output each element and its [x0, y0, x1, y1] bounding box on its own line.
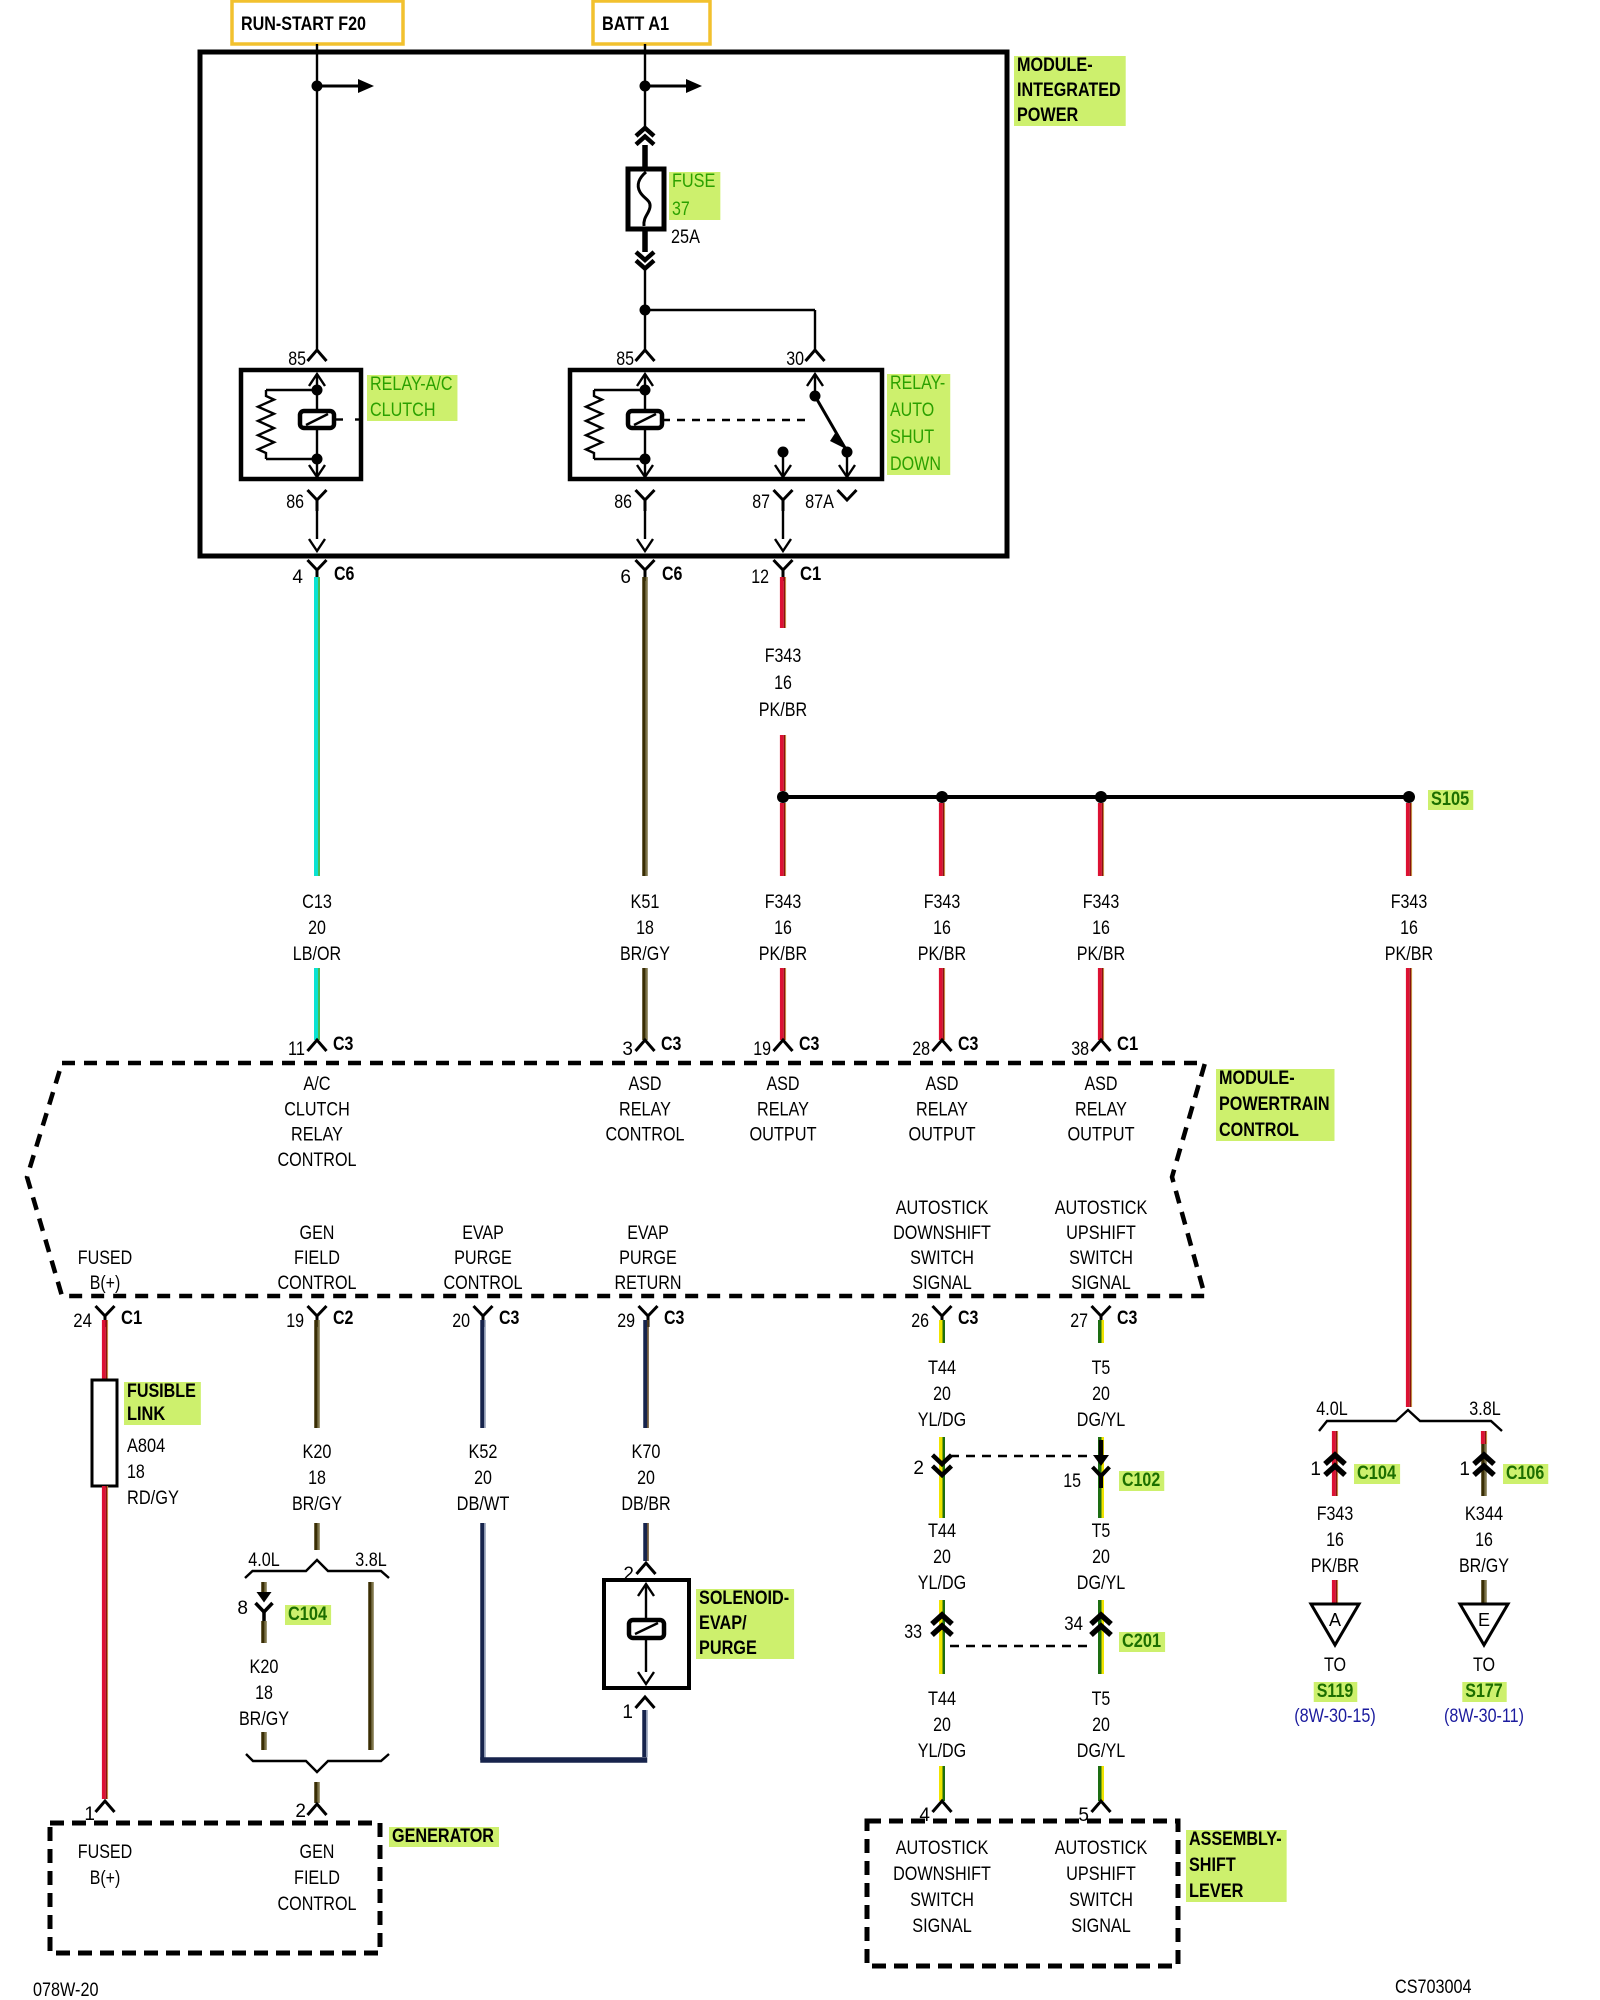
svg-text:CONTROL: CONTROL	[606, 1125, 685, 1146]
svg-text:ASD: ASD	[766, 1074, 799, 1095]
svg-text:AUTOSTICK: AUTOSTICK	[896, 1838, 989, 1859]
svg-text:1: 1	[1459, 1459, 1470, 1480]
svg-text:LEVER: LEVER	[1189, 1881, 1244, 1902]
svg-text:34: 34	[1064, 1614, 1083, 1635]
svg-text:RETURN: RETURN	[614, 1273, 681, 1294]
svg-text:PK/BR: PK/BR	[1077, 944, 1125, 965]
svg-text:28: 28	[912, 1039, 930, 1060]
svg-text:PK/BR: PK/BR	[1311, 1556, 1359, 1577]
svg-text:FUSE: FUSE	[672, 171, 715, 192]
svg-text:RELAY: RELAY	[619, 1099, 671, 1120]
svg-text:GEN: GEN	[300, 1223, 335, 1244]
svg-text:20: 20	[1092, 1547, 1110, 1568]
svg-text:CS703004: CS703004	[1395, 1977, 1472, 1998]
svg-text:MODULE-: MODULE-	[1219, 1068, 1295, 1089]
svg-text:T44: T44	[928, 1358, 956, 1379]
svg-text:FUSED: FUSED	[78, 1842, 132, 1863]
svg-text:19: 19	[753, 1039, 771, 1060]
svg-text:20: 20	[1092, 1384, 1110, 1405]
svg-text:K20: K20	[250, 1657, 279, 1678]
svg-text:86: 86	[614, 492, 632, 513]
svg-text:ASD: ASD	[925, 1074, 958, 1095]
svg-text:85: 85	[288, 349, 306, 370]
svg-text:C3: C3	[661, 1034, 681, 1055]
svg-text:C6: C6	[334, 564, 354, 585]
svg-text:2: 2	[913, 1458, 924, 1479]
svg-text:LB/OR: LB/OR	[293, 944, 341, 965]
svg-text:YL/DG: YL/DG	[918, 1573, 966, 1594]
svg-text:87A: 87A	[805, 492, 834, 513]
svg-text:C1: C1	[800, 564, 822, 585]
svg-text:8: 8	[237, 1598, 248, 1619]
svg-text:F343: F343	[1083, 892, 1120, 913]
svg-text:POWER: POWER	[1017, 105, 1078, 126]
svg-text:RELAY: RELAY	[916, 1099, 968, 1120]
svg-text:1: 1	[84, 1804, 95, 1825]
svg-text:INTEGRATED: INTEGRATED	[1017, 80, 1121, 101]
svg-text:C3: C3	[1117, 1308, 1137, 1329]
svg-text:BATT A1: BATT A1	[602, 14, 669, 35]
svg-text:CLUTCH: CLUTCH	[284, 1099, 350, 1120]
svg-text:SWITCH: SWITCH	[1069, 1890, 1133, 1911]
svg-text:BR/GY: BR/GY	[239, 1709, 289, 1730]
svg-text:12: 12	[751, 567, 769, 588]
svg-text:3: 3	[622, 1039, 633, 1060]
svg-text:TO: TO	[1473, 1655, 1495, 1676]
svg-text:PURGE: PURGE	[699, 1638, 757, 1659]
svg-text:A: A	[1329, 1610, 1341, 1630]
svg-text:K20: K20	[303, 1442, 332, 1463]
svg-text:B(+): B(+)	[90, 1273, 121, 1294]
svg-text:38: 38	[1071, 1039, 1089, 1060]
svg-text:20: 20	[933, 1715, 951, 1736]
svg-text:20: 20	[308, 918, 326, 939]
svg-text:PURGE: PURGE	[454, 1248, 512, 1269]
svg-text:S105: S105	[1431, 789, 1470, 810]
svg-text:DG/YL: DG/YL	[1077, 1573, 1125, 1594]
svg-text:16: 16	[1326, 1530, 1344, 1551]
svg-text:ASD: ASD	[628, 1074, 661, 1095]
svg-text:RD/GY: RD/GY	[127, 1488, 179, 1509]
svg-text:4.0L: 4.0L	[248, 1550, 279, 1571]
svg-text:SHIFT: SHIFT	[1189, 1855, 1236, 1876]
svg-text:86: 86	[286, 492, 304, 513]
svg-text:CONTROL: CONTROL	[444, 1273, 523, 1294]
svg-text:DG/YL: DG/YL	[1077, 1741, 1125, 1762]
svg-text:BR/GY: BR/GY	[292, 1494, 342, 1515]
svg-text:RUN-START F20: RUN-START F20	[241, 14, 366, 35]
svg-text:CONTROL: CONTROL	[1219, 1120, 1299, 1141]
svg-text:LINK: LINK	[127, 1404, 165, 1425]
svg-text:18: 18	[255, 1683, 273, 1704]
svg-text:OUTPUT: OUTPUT	[749, 1125, 816, 1146]
svg-text:20: 20	[452, 1311, 470, 1332]
svg-text:DOWN: DOWN	[890, 454, 941, 475]
svg-text:16: 16	[774, 673, 792, 694]
svg-text:SWITCH: SWITCH	[910, 1890, 974, 1911]
svg-text:C106: C106	[1506, 1463, 1544, 1484]
svg-text:AUTOSTICK: AUTOSTICK	[896, 1198, 989, 1219]
svg-text:YL/DG: YL/DG	[918, 1410, 966, 1431]
svg-text:SWITCH: SWITCH	[910, 1248, 974, 1269]
svg-text:25A: 25A	[671, 227, 700, 248]
svg-text:1: 1	[1310, 1459, 1321, 1480]
svg-text:RELAY-A/C: RELAY-A/C	[370, 374, 453, 395]
svg-text:S119: S119	[1317, 1681, 1354, 1702]
svg-text:SIGNAL: SIGNAL	[1071, 1273, 1131, 1294]
svg-text:RELAY-: RELAY-	[890, 373, 945, 394]
svg-text:18: 18	[636, 918, 654, 939]
svg-text:FIELD: FIELD	[294, 1248, 340, 1269]
svg-text:SIGNAL: SIGNAL	[912, 1273, 972, 1294]
svg-text:C104: C104	[1357, 1463, 1396, 1484]
svg-text:DB/WT: DB/WT	[457, 1494, 510, 1515]
svg-text:3.8L: 3.8L	[355, 1550, 386, 1571]
svg-text:CLUTCH: CLUTCH	[370, 400, 436, 421]
svg-text:A/C: A/C	[303, 1074, 330, 1095]
svg-text:K52: K52	[469, 1442, 498, 1463]
svg-text:C3: C3	[799, 1034, 819, 1055]
svg-text:19: 19	[286, 1311, 304, 1332]
svg-text:TO: TO	[1324, 1655, 1346, 1676]
svg-text:AUTOSTICK: AUTOSTICK	[1055, 1838, 1148, 1859]
svg-text:87: 87	[752, 492, 770, 513]
svg-text:SIGNAL: SIGNAL	[1071, 1916, 1131, 1937]
svg-text:EVAP: EVAP	[627, 1223, 669, 1244]
svg-text:OUTPUT: OUTPUT	[908, 1125, 975, 1146]
svg-text:20: 20	[637, 1468, 655, 1489]
svg-text:SIGNAL: SIGNAL	[912, 1916, 972, 1937]
svg-text:F343: F343	[1317, 1504, 1354, 1525]
svg-text:B(+): B(+)	[90, 1868, 121, 1889]
svg-text:1: 1	[622, 1702, 633, 1723]
svg-text:C104: C104	[288, 1604, 327, 1625]
svg-text:ASD: ASD	[1084, 1074, 1117, 1095]
svg-text:C6: C6	[662, 564, 682, 585]
svg-text:16: 16	[933, 918, 951, 939]
svg-text:C1: C1	[1117, 1034, 1139, 1055]
svg-text:3.8L: 3.8L	[1469, 1399, 1500, 1420]
svg-text:BR/GY: BR/GY	[620, 944, 670, 965]
svg-text:20: 20	[474, 1468, 492, 1489]
svg-text:EVAP: EVAP	[462, 1223, 504, 1244]
svg-text:MODULE-: MODULE-	[1017, 55, 1093, 76]
svg-text:F343: F343	[1391, 892, 1428, 913]
svg-text:30: 30	[786, 349, 804, 370]
svg-text:29: 29	[617, 1311, 635, 1332]
svg-text:T5: T5	[1092, 1358, 1111, 1379]
svg-text:(8W-30-11): (8W-30-11)	[1444, 1706, 1524, 1727]
svg-text:20: 20	[1092, 1715, 1110, 1736]
svg-text:PK/BR: PK/BR	[759, 944, 807, 965]
svg-text:GENERATOR: GENERATOR	[392, 1826, 494, 1847]
svg-text:18: 18	[127, 1462, 145, 1483]
svg-text:CONTROL: CONTROL	[278, 1894, 357, 1915]
svg-text:RELAY: RELAY	[291, 1125, 343, 1146]
svg-text:24: 24	[73, 1311, 92, 1332]
svg-text:078W-20: 078W-20	[33, 1980, 99, 2000]
svg-text:GEN: GEN	[300, 1842, 335, 1863]
svg-text:T5: T5	[1092, 1521, 1111, 1542]
svg-text:(8W-30-15): (8W-30-15)	[1294, 1706, 1376, 1727]
svg-text:F343: F343	[765, 646, 802, 667]
svg-text:FUSED: FUSED	[78, 1248, 132, 1269]
svg-text:11: 11	[288, 1039, 305, 1060]
svg-text:20: 20	[933, 1547, 951, 1568]
svg-text:C13: C13	[302, 892, 332, 913]
svg-text:K344: K344	[1465, 1504, 1504, 1525]
svg-text:DOWNSHIFT: DOWNSHIFT	[893, 1223, 991, 1244]
svg-text:C201: C201	[1122, 1631, 1161, 1652]
svg-text:FUSIBLE: FUSIBLE	[127, 1381, 196, 1402]
svg-text:C102: C102	[1122, 1470, 1160, 1491]
svg-text:T44: T44	[928, 1521, 956, 1542]
svg-text:FIELD: FIELD	[294, 1868, 340, 1889]
svg-text:C3: C3	[333, 1034, 353, 1055]
svg-text:ASSEMBLY-: ASSEMBLY-	[1189, 1829, 1282, 1850]
svg-text:K51: K51	[631, 892, 660, 913]
svg-text:DOWNSHIFT: DOWNSHIFT	[893, 1864, 991, 1885]
svg-text:K70: K70	[632, 1442, 661, 1463]
svg-text:SWITCH: SWITCH	[1069, 1248, 1133, 1269]
svg-text:C3: C3	[664, 1308, 684, 1329]
svg-text:4: 4	[292, 567, 303, 588]
svg-text:15: 15	[1063, 1471, 1081, 1492]
svg-text:85: 85	[616, 349, 634, 370]
svg-text:A804: A804	[127, 1436, 166, 1457]
svg-text:27: 27	[1070, 1311, 1088, 1332]
svg-text:16: 16	[774, 918, 792, 939]
svg-text:SOLENOID-: SOLENOID-	[699, 1588, 789, 1609]
svg-text:EVAP/: EVAP/	[699, 1613, 747, 1634]
svg-text:UPSHIFT: UPSHIFT	[1066, 1223, 1136, 1244]
svg-text:20: 20	[933, 1384, 951, 1405]
svg-text:C2: C2	[333, 1308, 353, 1329]
svg-text:BR/GY: BR/GY	[1459, 1556, 1509, 1577]
svg-text:OUTPUT: OUTPUT	[1067, 1125, 1134, 1146]
svg-text:F343: F343	[765, 892, 802, 913]
svg-text:DG/YL: DG/YL	[1077, 1410, 1125, 1431]
svg-text:POWERTRAIN: POWERTRAIN	[1219, 1094, 1330, 1115]
svg-text:16: 16	[1400, 918, 1418, 939]
svg-text:C1: C1	[121, 1308, 143, 1329]
svg-text:UPSHIFT: UPSHIFT	[1066, 1864, 1136, 1885]
svg-text:PK/BR: PK/BR	[918, 944, 966, 965]
svg-text:4.0L: 4.0L	[1316, 1399, 1347, 1420]
svg-text:16: 16	[1092, 918, 1110, 939]
svg-text:AUTOSTICK: AUTOSTICK	[1055, 1198, 1148, 1219]
svg-text:C3: C3	[958, 1308, 978, 1329]
svg-text:S177: S177	[1465, 1681, 1502, 1702]
svg-text:YL/DG: YL/DG	[918, 1741, 966, 1762]
svg-text:RELAY: RELAY	[757, 1099, 809, 1120]
svg-text:PK/BR: PK/BR	[759, 700, 807, 721]
svg-text:SHUT: SHUT	[890, 427, 935, 448]
svg-text:18: 18	[308, 1468, 326, 1489]
svg-text:26: 26	[911, 1311, 929, 1332]
svg-text:2: 2	[295, 1801, 306, 1822]
svg-text:E: E	[1478, 1610, 1490, 1630]
svg-text:RELAY: RELAY	[1075, 1099, 1127, 1120]
svg-text:37: 37	[672, 199, 690, 220]
svg-text:F343: F343	[924, 892, 961, 913]
svg-text:CONTROL: CONTROL	[278, 1150, 357, 1171]
svg-text:C3: C3	[499, 1308, 519, 1329]
svg-text:AUTO: AUTO	[890, 400, 934, 421]
svg-text:33: 33	[904, 1622, 922, 1643]
svg-text:C3: C3	[958, 1034, 978, 1055]
svg-text:16: 16	[1475, 1530, 1493, 1551]
svg-text:T44: T44	[928, 1689, 956, 1710]
svg-text:6: 6	[620, 567, 631, 588]
svg-text:PK/BR: PK/BR	[1385, 944, 1433, 965]
svg-text:DB/BR: DB/BR	[621, 1494, 670, 1515]
svg-text:PURGE: PURGE	[619, 1248, 677, 1269]
svg-text:T5: T5	[1092, 1689, 1111, 1710]
svg-text:CONTROL: CONTROL	[278, 1273, 357, 1294]
